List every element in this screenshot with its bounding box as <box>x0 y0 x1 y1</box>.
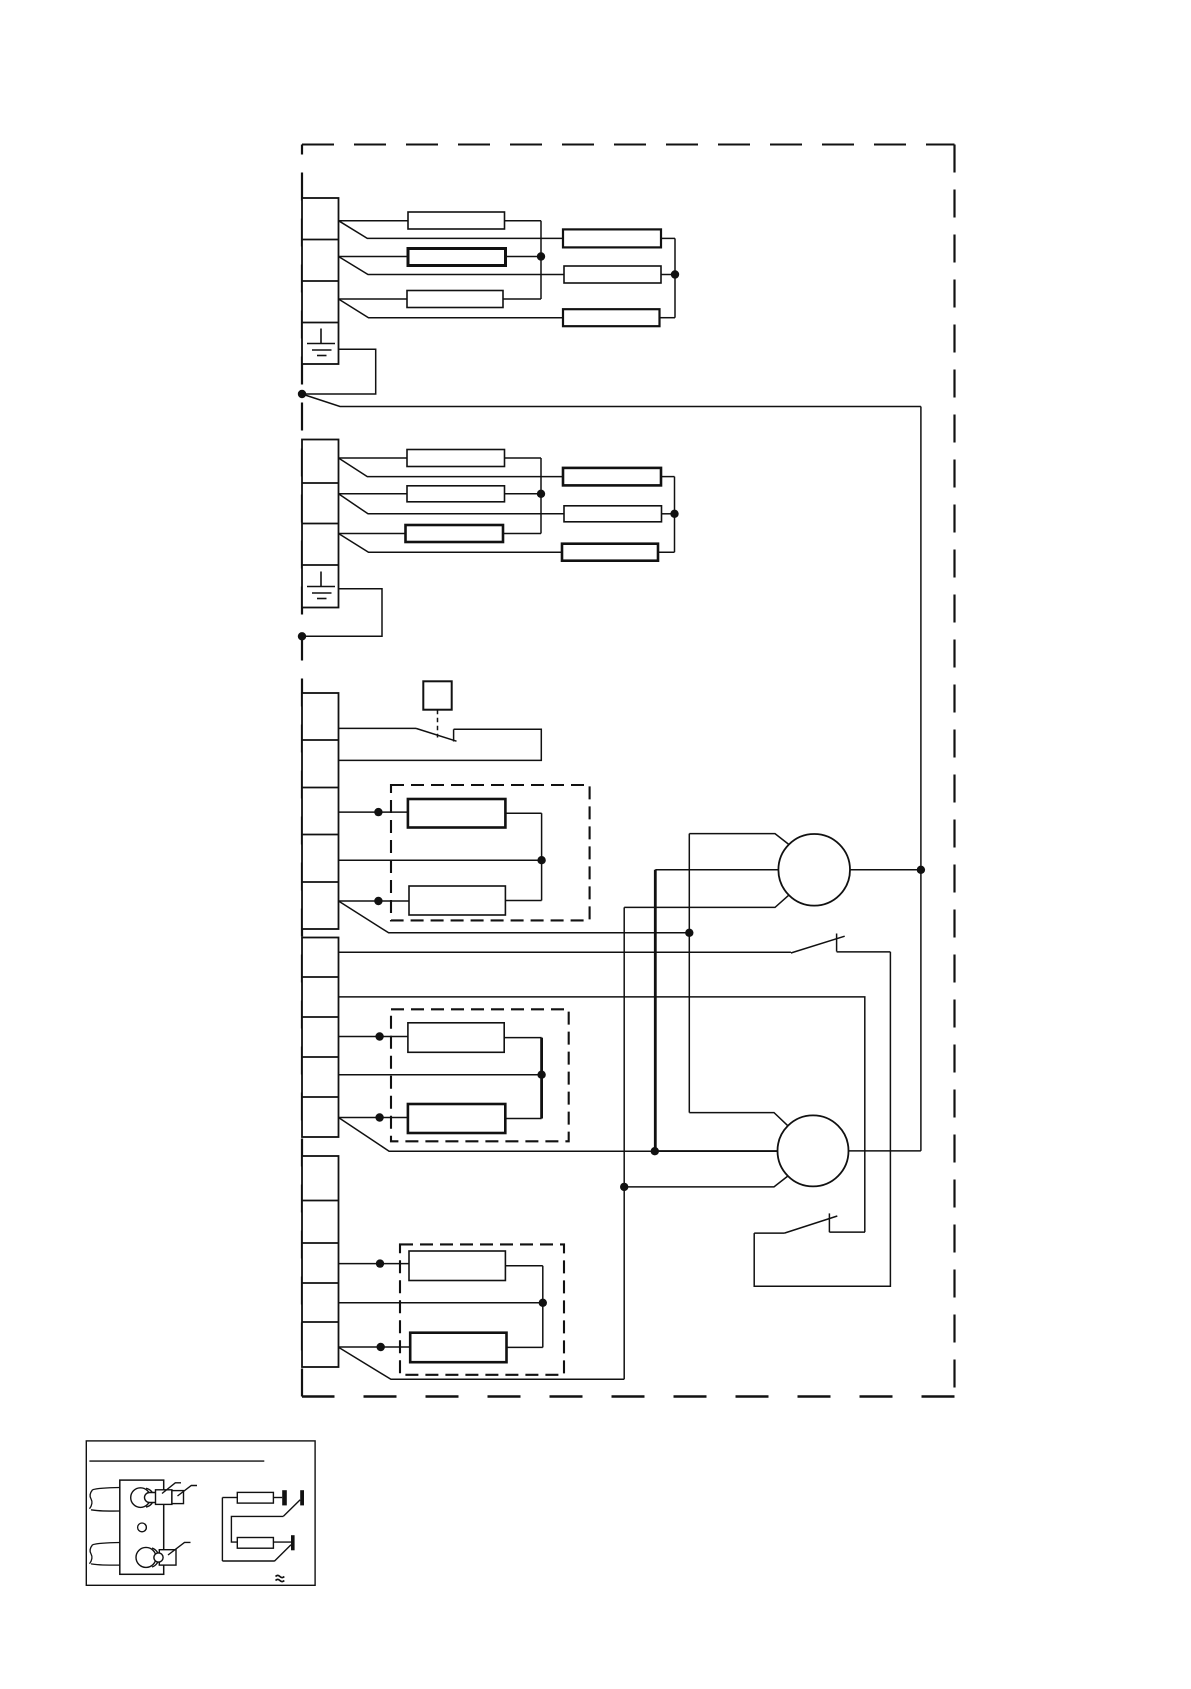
wire bus F <box>542 1266 544 1348</box>
wire S1 contact step <box>837 951 891 953</box>
wire bus B2 <box>674 477 676 553</box>
ground symbol TB1 <box>307 329 335 356</box>
node NE1 <box>375 1032 383 1040</box>
contact plate P1 <box>282 1490 287 1505</box>
resistor RB1 <box>563 229 661 247</box>
switch ST1 blade <box>283 1500 300 1517</box>
wire TB2 ground return <box>302 589 382 637</box>
wire cell3 diagonal <box>339 534 563 553</box>
resistor RF2 <box>410 1333 506 1363</box>
terminal block TB5 <box>302 1156 339 1367</box>
switch S2 blade <box>784 1216 837 1233</box>
wire inset bottom <box>222 1560 274 1562</box>
terminal block TB2 <box>302 440 339 608</box>
wire RT2 right lead <box>273 1541 291 1543</box>
wire cell4 to bus E <box>339 1074 542 1076</box>
wire vertical tap A <box>623 907 625 1379</box>
wire RB6 right lead <box>658 551 675 553</box>
wire cell1 diagonal <box>339 221 564 239</box>
resistor R5 <box>407 486 505 502</box>
wire TB1 ground return <box>302 349 376 394</box>
node NA <box>620 1183 628 1191</box>
wire RB4 right lead <box>661 476 675 478</box>
wire bus E <box>540 1038 543 1119</box>
node RB5-bus junction <box>670 510 678 518</box>
node NF1 <box>376 1259 384 1267</box>
wire cell5 diagonal feeder <box>339 1347 625 1379</box>
wire cell3 to RF1 <box>339 1263 409 1265</box>
wire S2 pivot lead <box>754 1232 784 1234</box>
wire cell1 to R1 <box>339 220 409 222</box>
contact plate P3 <box>291 1535 295 1550</box>
wire M2 mid tap <box>655 1150 778 1152</box>
node NE3 <box>375 1113 383 1121</box>
resistor RB3 <box>563 309 660 326</box>
motor M2 <box>778 1115 849 1186</box>
thermostat mounting plate <box>120 1480 164 1574</box>
thermostat upper bulb <box>131 1483 197 1508</box>
wire cell3 diagonal <box>339 299 564 318</box>
wire M2 top tap <box>689 1113 788 1126</box>
wire cell5 diagonal feeder <box>339 901 690 933</box>
node NB <box>651 1147 659 1155</box>
wire S1 to S2 link <box>754 952 890 1286</box>
resistor RT1 <box>237 1492 273 1503</box>
terminal block TB3 <box>302 693 339 929</box>
wire RT1 right lead <box>273 1497 282 1499</box>
wire cell2 diagonal <box>339 494 565 514</box>
wire cell1 to switch S1 <box>339 951 791 953</box>
wire bus A2 <box>540 458 542 534</box>
wire cell4 to bus D <box>339 859 542 861</box>
wire RB3 right lead <box>660 317 676 319</box>
inset title rule <box>89 1460 264 1462</box>
switch ST2 blade <box>275 1545 291 1561</box>
wire M2 right <box>849 1150 921 1152</box>
terminal block TB4 <box>302 938 339 1138</box>
resistor R3 <box>407 291 503 308</box>
dashed box bottom elements <box>400 1244 564 1374</box>
resistor R6 <box>406 525 504 542</box>
wire RF2 right lead <box>507 1346 543 1348</box>
thermostat capillary leads lower <box>90 1543 120 1566</box>
thermostat screw hole <box>138 1523 147 1532</box>
wire cell5 diagonal feeder <box>339 1118 778 1152</box>
resistor R2 <box>408 249 506 266</box>
wire R3 right lead <box>503 298 541 300</box>
contact plate P2 <box>300 1490 304 1505</box>
wire cell3 to RD1 <box>339 811 408 813</box>
wire cell5 to RD2 <box>339 900 410 902</box>
wire R6 right lead <box>503 533 541 535</box>
switch S2 contact tick <box>828 1213 830 1232</box>
wire M2 bottom tap <box>624 1176 788 1187</box>
node N2 <box>298 632 306 640</box>
resistor RE2 <box>408 1104 505 1133</box>
node R5-bus junction <box>537 490 545 498</box>
wire R4 right lead <box>505 457 542 459</box>
node ND2 <box>537 856 545 864</box>
resistor RD1 <box>408 799 506 828</box>
dashed box fan elements <box>391 1009 569 1141</box>
approx symbol mark <box>276 1575 285 1581</box>
wire RB1 right lead <box>661 237 675 239</box>
node NM1 <box>917 866 925 874</box>
wire cell1 to R4 <box>339 457 408 459</box>
resistor RB4 <box>563 468 661 486</box>
wire S2 contact bar <box>829 1231 865 1233</box>
outer dashed enclosure <box>302 145 955 1397</box>
node NF3 <box>377 1343 385 1351</box>
wire cell4 to bus F <box>339 1302 543 1304</box>
wire RF1 right lead <box>505 1265 542 1267</box>
wire inset middle link <box>231 1516 283 1542</box>
wire R2 right lead <box>506 256 542 258</box>
wire cell5 to RE2 <box>339 1117 408 1119</box>
ground symbol TB2 <box>307 572 335 599</box>
wire cell1 to switch S3 <box>339 727 417 729</box>
resistor RB5 <box>564 506 662 522</box>
wire RE1 right lead <box>504 1037 541 1039</box>
wire R5 right lead <box>505 493 542 495</box>
wire cell2 to switch S2 contact <box>339 997 865 1232</box>
wire cell3 to R6 <box>339 533 406 535</box>
wire cell5 to RF2 <box>339 1346 411 1348</box>
wire cell2 to R2 <box>339 256 409 258</box>
dashed box grill elements <box>391 785 590 920</box>
thermostat lower bulb <box>136 1542 191 1567</box>
switch S1 blade <box>791 936 845 953</box>
node ND1 <box>374 808 382 816</box>
INSET : thermostat detail <box>86 1441 315 1585</box>
resistor R1 <box>408 212 505 229</box>
node NE2 <box>537 1071 545 1079</box>
wire bus D <box>541 813 543 900</box>
wire M1 mid tap <box>655 869 778 871</box>
resistor RB6 <box>562 544 658 561</box>
dashed actuator link <box>437 710 439 738</box>
resistor RF1 <box>409 1251 505 1281</box>
wire RB2 right lead <box>661 274 675 276</box>
node NF2 <box>539 1299 547 1307</box>
wire S3 contact to cell2 <box>339 729 542 760</box>
wire R1 right lead to bus <box>505 220 542 222</box>
wire M1 right <box>850 869 921 871</box>
wire cell2 diagonal <box>339 257 565 275</box>
switch S3 contact tick <box>453 729 455 741</box>
node NC <box>685 929 693 937</box>
wire RD1 right lead <box>505 812 541 814</box>
node R2-bus junction <box>537 252 545 260</box>
wire vertical tap B thick <box>654 870 657 1151</box>
switch S1 contact tick <box>836 934 838 952</box>
resistor RE1 <box>408 1023 504 1053</box>
inset frame <box>86 1441 315 1585</box>
resistor RD2 <box>409 886 505 915</box>
wire main feeder vertical <box>920 407 922 1151</box>
wire cell3 to RE1 <box>339 1036 408 1038</box>
wire bus B1 <box>674 238 676 317</box>
wire N1 feeder to motors <box>302 394 921 407</box>
wire cell1 diagonal <box>339 458 564 477</box>
wire M1 top tap <box>689 834 789 845</box>
wire cell3 to R3 <box>339 298 408 300</box>
wire inset top lead <box>222 1497 237 1499</box>
wire bus A1 <box>540 221 542 299</box>
wire RB5 right lead <box>662 513 675 515</box>
resistor RT2 <box>237 1538 273 1549</box>
node RB2-bus junction <box>671 270 679 278</box>
node N1 <box>298 390 306 398</box>
node ND3 <box>374 897 382 905</box>
thermostat bulb box <box>423 681 451 709</box>
wire M1 bottom tap <box>624 895 789 907</box>
wire RE2 right lead <box>505 1118 541 1120</box>
motor M1 <box>778 834 850 906</box>
resistor R4 <box>407 450 505 467</box>
wire cell2 to R5 <box>339 493 408 495</box>
terminal block TB1 <box>302 198 339 364</box>
thermostat capillary leads upper <box>90 1488 120 1512</box>
inset schematic <box>222 1490 304 1561</box>
wire RD2 right lead <box>505 900 541 902</box>
switch S3 blade <box>416 728 457 741</box>
wire vertical tap C <box>688 834 690 1113</box>
resistor RB2 <box>564 266 661 283</box>
wire inset bus <box>221 1498 223 1562</box>
